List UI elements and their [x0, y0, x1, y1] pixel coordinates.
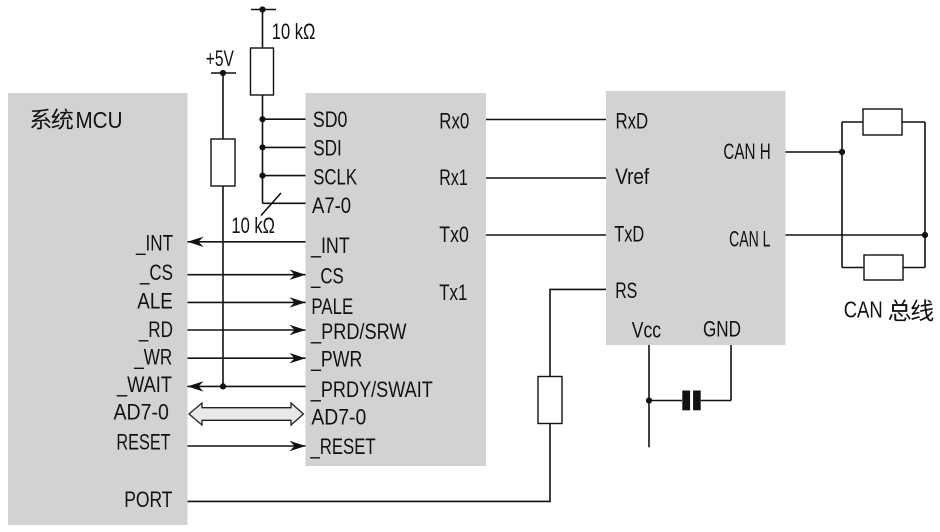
svg-text:Vcc: Vcc	[632, 317, 661, 342]
svg-text:PORT: PORT	[124, 487, 172, 512]
svg-text:Rx1: Rx1	[439, 165, 467, 190]
svg-text:Tx0: Tx0	[439, 222, 469, 247]
svg-text:Rx0: Rx0	[439, 109, 469, 134]
svg-text:RS: RS	[615, 278, 637, 303]
svg-text:AD7-0: AD7-0	[311, 404, 366, 429]
svg-text:GND: GND	[703, 317, 741, 342]
svg-text:CAN: CAN	[844, 297, 883, 323]
svg-text:_PRDY/SWAIT: _PRDY/SWAIT	[310, 377, 433, 402]
svg-text:AD7-0: AD7-0	[114, 400, 169, 425]
svg-text:Tx1: Tx1	[439, 280, 467, 305]
svg-text:RxD: RxD	[616, 109, 649, 134]
svg-text:+5V: +5V	[206, 46, 234, 71]
svg-text:SDI: SDI	[313, 135, 342, 160]
svg-text:SCLK: SCLK	[313, 164, 357, 189]
svg-text:_INT: _INT	[135, 230, 173, 255]
svg-text:A7-0: A7-0	[312, 193, 351, 218]
svg-text:10 kΩ: 10 kΩ	[272, 19, 316, 44]
svg-text:CAN H: CAN H	[723, 139, 770, 164]
svg-text:10 kΩ: 10 kΩ	[231, 213, 275, 238]
svg-text:_CS: _CS	[310, 264, 344, 289]
svg-text:_CS: _CS	[139, 260, 173, 285]
svg-text:TxD: TxD	[614, 222, 644, 247]
svg-text:PALE: PALE	[311, 294, 353, 319]
svg-text:CAN L: CAN L	[729, 227, 770, 252]
svg-text:_RD: _RD	[138, 317, 173, 342]
svg-text:_PWR: _PWR	[310, 346, 362, 371]
svg-text:_WAIT: _WAIT	[116, 372, 172, 397]
svg-text:RESET: RESET	[116, 430, 170, 455]
svg-text:MCU: MCU	[76, 107, 123, 133]
svg-text:_INT: _INT	[310, 233, 350, 258]
svg-text:Vref: Vref	[615, 164, 650, 189]
svg-text:SD0: SD0	[313, 107, 348, 132]
svg-text:_RESET: _RESET	[310, 434, 376, 459]
svg-text:_WR: _WR	[133, 345, 172, 370]
svg-text:ALE: ALE	[137, 289, 173, 314]
svg-text:_PRD/SRW: _PRD/SRW	[310, 319, 407, 344]
